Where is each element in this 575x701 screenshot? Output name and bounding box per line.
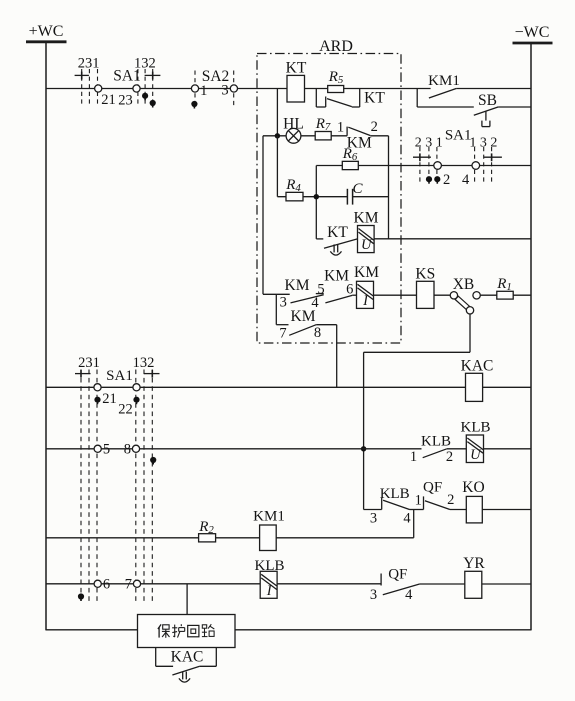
switch SA1 lower handle bar right — [144, 370, 160, 378]
resistor R2 — [199, 534, 216, 542]
label SA1 (lower) — [106, 368, 133, 384]
label SA1 (right) — [445, 128, 472, 144]
contact KM1 arm — [429, 89, 456, 99]
wire row H left — [46, 386, 466, 388]
time-delay symbol (KAC) — [179, 672, 190, 683]
svg-text:KAC: KAC — [461, 358, 494, 375]
svg-text:SB: SB — [478, 92, 497, 109]
label SA2 — [202, 68, 230, 85]
label 3 (SA2) — [221, 83, 228, 99]
contact KAC arm — [172, 666, 199, 675]
wire row I left — [46, 448, 422, 450]
label KT (delay contact) — [327, 224, 348, 241]
svg-text:KT: KT — [364, 90, 385, 107]
relay coil KT — [287, 75, 305, 102]
label QF (1-2 contact) — [423, 480, 442, 496]
label KM (3-4 contact) — [285, 277, 310, 294]
wire KS to XB — [434, 294, 450, 296]
svg-text:2: 2 — [371, 119, 378, 135]
svg-text:21: 21 — [102, 391, 117, 407]
connecting link XB right circle — [473, 292, 480, 299]
svg-text:4: 4 — [462, 172, 470, 188]
wire bottom right — [235, 629, 531, 631]
wire row J right — [482, 509, 531, 511]
wire vertical R6-left to C row — [315, 166, 317, 239]
label 1 (KLB) — [410, 449, 417, 465]
contact KM 1-2 arm — [348, 127, 370, 135]
wire KT-delay lead — [316, 238, 323, 240]
position dot SA1-21L — [94, 397, 100, 405]
wire row H right — [483, 386, 531, 388]
wire row E right — [353, 196, 389, 198]
label 23 — [118, 93, 133, 109]
label protection-circuit text — [158, 624, 214, 638]
label 7 — [279, 326, 286, 342]
svg-text:U: U — [470, 447, 482, 463]
resistor R4 — [286, 192, 303, 201]
svg-text:3: 3 — [370, 587, 377, 603]
contact KM 5-6 stub — [316, 293, 324, 295]
label KM1 (coil) — [253, 509, 285, 525]
label 132 (lower SA1) — [133, 355, 155, 371]
svg-text:KS: KS — [415, 266, 435, 283]
label 2 (right SA1) — [443, 172, 450, 188]
label R4 — [285, 177, 301, 194]
switch SA1 handle bar right — [145, 72, 161, 80]
position dot SA1-2 b — [434, 176, 440, 184]
wire KLB contact to coil — [447, 448, 467, 450]
label 3 — [280, 295, 287, 311]
junction node E — [361, 446, 366, 451]
label KO — [462, 479, 484, 496]
contact QF 3-4 tick — [380, 574, 382, 586]
contact SA1-7 circle — [133, 580, 140, 587]
wire drop to SB row — [416, 89, 418, 108]
position dot SA1-23 a — [142, 93, 148, 101]
svg-text:2: 2 — [447, 492, 454, 508]
svg-text:132: 132 — [133, 355, 155, 371]
wire row G stub — [263, 293, 290, 295]
relay YR — [465, 571, 482, 598]
wire drop to protection box — [186, 584, 188, 615]
contact QF 3-4 arm — [383, 584, 420, 595]
label C — [352, 181, 363, 197]
switch SA2 position line 1 — [194, 71, 196, 109]
wire row K left — [46, 537, 260, 539]
relay coil KM voltage element U — [358, 226, 375, 254]
wire left bus — [45, 42, 47, 631]
wire row E left — [277, 196, 347, 198]
wire vertical junction to R4 row — [276, 136, 278, 197]
svg-text:22: 22 — [118, 402, 133, 418]
wire row K right — [276, 537, 414, 539]
label KM (U coil) — [354, 210, 379, 227]
contact KLB 3-4 tick — [381, 498, 383, 510]
connecting link XB open circle left — [450, 292, 457, 299]
wire SB row right — [498, 106, 531, 108]
svg-text:2: 2 — [443, 172, 450, 188]
wire row J drop to KM1 row — [413, 510, 415, 538]
label 3 (QF34) — [370, 587, 377, 603]
connecting link XB bar — [455, 296, 469, 309]
wire row C right — [370, 135, 388, 137]
contact SA1-4 circle — [472, 162, 480, 170]
wire row C — [263, 135, 347, 137]
contact SA1-2 circle — [434, 162, 442, 170]
contact SA2-3 circle — [230, 85, 237, 92]
wire vertical row C to row G — [262, 136, 264, 294]
switch SA1 handle bar left — [75, 72, 89, 80]
position dot SA1-2 a — [426, 176, 432, 184]
contact KT tick — [325, 97, 327, 108]
svg-text:8: 8 — [314, 325, 321, 341]
svg-text:+WC: +WC — [29, 23, 64, 40]
resistor R7 — [315, 132, 331, 140]
label R7 — [315, 116, 331, 133]
label 5 (lower) — [103, 442, 110, 458]
contact QF 1-2 arm — [425, 501, 450, 510]
relay KAC — [466, 373, 483, 401]
label R5 — [328, 69, 344, 86]
label 4 (KLB) — [403, 511, 411, 527]
relay coil KLB current element I — [260, 571, 277, 599]
svg-text:4: 4 — [403, 511, 411, 527]
label KM (5-6 contact) — [324, 268, 349, 285]
svg-text:KM1: KM1 — [253, 509, 285, 525]
label 4 (right SA1) — [462, 172, 470, 188]
contact SA1-23 circle — [133, 85, 140, 92]
svg-text:−WC: −WC — [515, 24, 550, 41]
label 231 (upper SA1) — [78, 56, 100, 72]
contact SA1-8 circle — [132, 445, 139, 452]
contact SA1-21L circle — [94, 384, 101, 391]
junction node A — [275, 133, 280, 138]
svg-text:21: 21 — [101, 92, 116, 108]
contact SA1-22 circle — [133, 384, 140, 391]
label 7 (lower) — [125, 577, 132, 593]
contact KM 7-8 arm — [289, 325, 316, 336]
switch SA1 position lines (upper) — [82, 69, 153, 107]
wire row J left stub — [364, 509, 382, 511]
label KLB (U coil) — [461, 420, 491, 436]
svg-text:3: 3 — [370, 511, 377, 527]
svg-text:KLB: KLB — [461, 420, 491, 436]
label KLB (1-2 contact) — [421, 434, 451, 450]
label 4 (QF34) — [405, 587, 413, 603]
label 231 (right SA1) — [415, 136, 443, 151]
wire KM 7-8 stub — [276, 324, 288, 326]
position dot SA1-22 — [133, 397, 139, 405]
contact KM 1-2 tick — [346, 127, 348, 136]
wire row I right — [484, 448, 532, 450]
pushbutton SB actuator — [482, 111, 490, 126]
position dot SA1-6 — [78, 593, 84, 601]
svg-text:XB: XB — [453, 276, 475, 293]
contact SB arm — [474, 107, 499, 115]
label KAC (bottom contact) — [171, 649, 204, 666]
svg-text:3: 3 — [280, 295, 287, 311]
wire row F right (to bus) — [374, 238, 531, 240]
resistor R6 — [342, 161, 358, 169]
label 1 (SA2) — [200, 83, 207, 99]
wire KM 7-8 right — [316, 324, 337, 326]
label 21 — [101, 92, 116, 108]
wire vertical node B — [388, 136, 390, 239]
label KT (coil) — [286, 60, 307, 77]
+WC bus label — [29, 23, 64, 40]
label 6 — [346, 282, 353, 298]
label SB — [478, 92, 497, 109]
label 21 (lower) — [102, 391, 117, 407]
label R1 — [496, 276, 512, 293]
relay coil KLB voltage element U — [466, 435, 483, 463]
label 8 (lower) — [124, 442, 131, 458]
position dot SA1-8 — [150, 457, 156, 465]
relay KS — [417, 281, 435, 308]
protection circuit box — [138, 615, 236, 648]
svg-text:1: 1 — [337, 120, 344, 136]
contact KM 5-6 arm — [325, 295, 352, 303]
svg-text:23: 23 — [118, 93, 133, 109]
relay coil KM current element I — [357, 281, 374, 309]
svg-text:4: 4 — [405, 587, 413, 603]
svg-text:U: U — [361, 237, 373, 253]
switch SA2 position line 2 — [233, 71, 235, 109]
svg-text:2 3 1: 2 3 1 — [415, 136, 443, 151]
wire row A right (KM1 to bus) — [456, 88, 531, 90]
contact KT arm (parallel R5) — [327, 99, 352, 107]
svg-text:KAC: KAC — [171, 649, 204, 666]
svg-text:KT: KT — [286, 60, 307, 77]
svg-text:SA1: SA1 — [106, 368, 133, 384]
wire R1 to bus — [513, 294, 531, 296]
label 132 (upper SA1) — [134, 56, 156, 72]
svg-text:KM: KM — [285, 277, 310, 294]
svg-text:YR: YR — [463, 555, 485, 572]
contact SA1-6 circle — [94, 580, 101, 587]
label 4 — [311, 295, 319, 311]
wire row D (R6 to right bus) — [316, 165, 531, 167]
svg-text:QF: QF — [423, 480, 442, 496]
wire KM 7-8 drop to KAC row — [336, 325, 338, 388]
time-delay symbol (KT) — [330, 244, 341, 255]
wire KM coil to KS — [374, 294, 417, 296]
svg-text:2: 2 — [446, 449, 453, 465]
svg-text:6: 6 — [103, 577, 110, 593]
svg-text:1 3 2: 1 3 2 — [469, 136, 497, 151]
ARD enclosure (dash-dot box) — [257, 54, 401, 344]
relay coil KM1 — [260, 525, 277, 551]
switch SA1 right handle bar left — [413, 153, 431, 161]
+WC bus bar — [26, 40, 67, 43]
svg-text:1: 1 — [200, 83, 207, 99]
label 6 (lower) — [103, 577, 110, 593]
label 2 (KLB) — [446, 449, 453, 465]
contact SA1-21 circle — [95, 85, 102, 92]
wire QF34 to YR — [420, 583, 465, 585]
relay KO — [466, 496, 482, 523]
label R6 — [342, 146, 358, 163]
wire row J middle — [410, 509, 424, 511]
wire vertical to KM 7-8 — [275, 294, 277, 324]
switch SA1 position lines (right) — [420, 147, 492, 185]
contact KM 3-4 arm — [291, 295, 324, 303]
label XB — [453, 276, 475, 293]
resistor R5 — [328, 86, 344, 93]
capacitor C plates — [347, 189, 352, 205]
wire KT-contact bracket left — [316, 89, 325, 108]
wire XB to R1 — [480, 294, 497, 296]
svg-text:SA1: SA1 — [445, 128, 472, 144]
svg-text:KM: KM — [354, 210, 379, 227]
wire XB horizontal — [364, 351, 470, 353]
svg-text:5: 5 — [103, 442, 110, 458]
wire row A left (bus to KM1 contact) — [46, 88, 431, 90]
wire row L right — [482, 583, 531, 585]
contact KT (delayed) arm — [324, 239, 357, 248]
label 1 (KM contact) — [337, 120, 344, 136]
svg-text:KM: KM — [354, 264, 379, 281]
wire KT-contact bracket right — [352, 89, 360, 108]
switch SA1 position lines (lower) — [81, 370, 152, 602]
label HL — [283, 116, 304, 133]
contact KLB 1-2 arm — [423, 449, 447, 458]
svg-text:132: 132 — [134, 56, 156, 72]
label KAC — [461, 358, 494, 375]
svg-text:KT: KT — [327, 224, 348, 241]
svg-text:KLB: KLB — [421, 434, 451, 450]
label KLB (3-4 contact) — [380, 486, 410, 502]
svg-text:7: 7 — [279, 326, 286, 342]
label 3 (KLB) — [370, 511, 377, 527]
svg-text:KO: KO — [462, 479, 484, 496]
-WC bus label — [515, 24, 550, 41]
label SA1 (upper) — [113, 68, 141, 85]
switch SA1 lower handle bar left — [75, 370, 91, 378]
label 22 (lower) — [118, 402, 133, 418]
label 1 (QF) — [415, 493, 422, 509]
svg-text:8: 8 — [124, 442, 131, 458]
resistor R1 — [497, 291, 513, 299]
label ARD — [319, 38, 353, 55]
wire KAC bracket right — [200, 648, 217, 667]
wire XB drop — [469, 314, 471, 352]
wire KAC bracket left — [156, 648, 173, 667]
svg-text:7: 7 — [125, 577, 132, 593]
label 8 — [314, 325, 321, 341]
label KM (7-8 contact) — [291, 308, 316, 325]
svg-text:KLB: KLB — [380, 486, 410, 502]
label KM1 — [428, 73, 460, 89]
wire to KM current coil — [352, 294, 356, 296]
wire bottom left — [46, 629, 138, 631]
wire right bus — [530, 43, 532, 630]
label QF (3-4 contact) — [388, 567, 407, 583]
position dot SA2-1 — [191, 101, 197, 109]
-WC bus bar — [513, 42, 553, 45]
position dot SA1-23 b — [150, 100, 156, 108]
label KT (contact) — [364, 90, 385, 107]
label 231 (lower SA1) — [78, 355, 100, 371]
svg-text:HL: HL — [283, 116, 304, 133]
svg-text:QF: QF — [388, 567, 407, 583]
svg-text:1: 1 — [410, 449, 417, 465]
label 132 (right SA1) — [469, 136, 497, 151]
lamp HL — [286, 128, 301, 143]
svg-text:231: 231 — [78, 355, 100, 371]
contact SA2-1 circle — [191, 85, 198, 92]
wire QF to KO — [450, 509, 466, 511]
svg-text:3: 3 — [221, 83, 228, 99]
label KS — [415, 266, 435, 283]
label KLB (I coil) — [255, 558, 285, 574]
switch SA1 right handle bar right — [484, 153, 502, 161]
label R2 — [198, 519, 214, 536]
label YR — [463, 555, 485, 572]
contact QF 1-2 tick — [423, 496, 425, 509]
label 2 (KM contact) — [371, 119, 378, 135]
svg-text:1: 1 — [415, 493, 422, 509]
wire row L left — [46, 583, 381, 585]
wire node D vertical — [363, 352, 365, 509]
svg-text:KM: KM — [291, 308, 316, 325]
contact SA1-5 circle — [94, 445, 101, 452]
wire drop row A to HL row — [276, 89, 278, 136]
junction node C — [314, 194, 319, 199]
label 5 — [317, 282, 324, 298]
contact KLB 3-4 arm — [383, 500, 409, 509]
label 2 (QF) — [447, 492, 454, 508]
label KM (I coil) — [354, 264, 379, 281]
svg-text:KM1: KM1 — [428, 73, 460, 89]
svg-text:ARD: ARD — [319, 38, 353, 55]
svg-text:C: C — [352, 181, 363, 197]
wire SB row left — [417, 106, 474, 108]
label KM (1-2 contact) — [347, 135, 372, 152]
connecting link XB lower circle — [466, 307, 473, 314]
svg-text:231: 231 — [78, 56, 100, 72]
